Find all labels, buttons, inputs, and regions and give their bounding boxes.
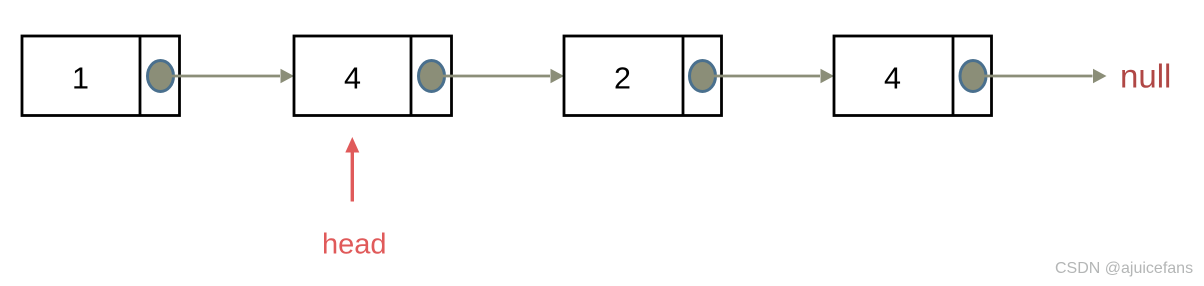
svg-text:1: 1 [72, 62, 89, 96]
svg-text:4: 4 [884, 62, 901, 96]
svg-text:2: 2 [614, 62, 631, 96]
svg-text:4: 4 [344, 62, 361, 96]
svg-text:head: head [322, 229, 387, 261]
svg-text:null: null [1120, 58, 1171, 95]
svg-text:CSDN @ajuicefans: CSDN @ajuicefans [1055, 260, 1193, 277]
